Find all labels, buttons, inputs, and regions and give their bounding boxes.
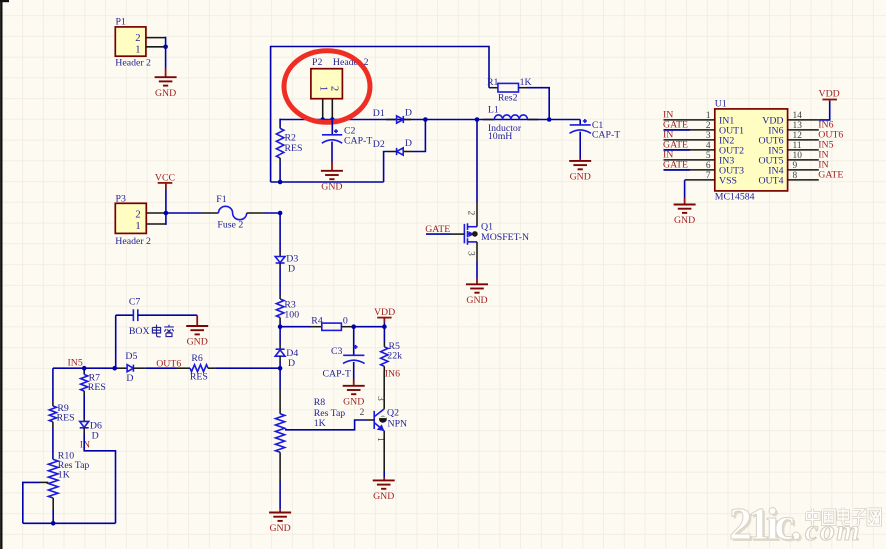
wire C1 to ground xyxy=(579,132,581,161)
svg-text:MOSFET-N: MOSFET-N xyxy=(481,232,529,243)
svg-text:1: 1 xyxy=(135,44,140,55)
junction R7 xyxy=(82,366,87,371)
connector P1 xyxy=(115,16,151,68)
U1 pin 1 IN1 xyxy=(663,110,734,127)
svg-text:BOX: BOX xyxy=(129,326,150,337)
wire P1 pin2 xyxy=(146,37,166,47)
U1 pin 7 VSS xyxy=(685,171,737,186)
svg-text:D5: D5 xyxy=(125,351,137,362)
wire Q2 emitter to ground xyxy=(383,431,385,481)
diode D1 xyxy=(373,107,412,123)
wire bus to R8 xyxy=(279,368,281,414)
wire C7 riser xyxy=(115,315,117,368)
svg-text:com: com xyxy=(805,514,861,547)
svg-text:14: 14 xyxy=(793,111,803,121)
wire D2 riser right xyxy=(411,120,425,152)
ground GND Q2 xyxy=(373,480,395,502)
connector P3 xyxy=(115,193,151,247)
svg-text:VSS: VSS xyxy=(719,175,737,186)
svg-text:CAP-T: CAP-T xyxy=(592,130,620,141)
U1 pin 8 OUT4 xyxy=(758,170,843,187)
wire D2 riser left xyxy=(384,152,388,183)
ground GND Q1 xyxy=(466,284,488,306)
wire left to R9 xyxy=(52,368,54,406)
svg-text:3: 3 xyxy=(375,396,385,401)
svg-text:22k: 22k xyxy=(387,351,402,362)
svg-text:GND: GND xyxy=(321,182,342,193)
U1 pin 12 OUT6 xyxy=(758,130,843,147)
svg-text:R6: R6 xyxy=(191,353,203,364)
wire R5 to Q2 collector xyxy=(383,372,385,409)
wire P2 pin2 xyxy=(331,99,333,120)
svg-text:1K: 1K xyxy=(314,418,326,429)
svg-text:12: 12 xyxy=(793,131,803,141)
svg-text:2: 2 xyxy=(135,210,140,221)
capacitor C2 xyxy=(322,120,373,147)
svg-text:8: 8 xyxy=(793,171,798,181)
wire R7 to D6 xyxy=(83,395,85,421)
wire P2 pin1 xyxy=(322,99,324,120)
svg-text:VDD: VDD xyxy=(819,89,840,100)
wire P1 pin1 xyxy=(146,46,166,48)
IC U1 MC14584 xyxy=(715,99,788,203)
label BOX cap xyxy=(129,325,174,338)
resistor R3 xyxy=(276,299,299,327)
ground GND P1 xyxy=(155,77,177,99)
svg-text:3: 3 xyxy=(706,131,711,141)
svg-text:GATE: GATE xyxy=(663,160,688,171)
svg-text:10: 10 xyxy=(793,151,803,161)
junction F1 bus xyxy=(278,211,283,216)
svg-text:4: 4 xyxy=(706,141,711,151)
svg-text:Header 2: Header 2 xyxy=(115,57,151,68)
svg-text:Res Tap: Res Tap xyxy=(314,408,346,419)
svg-text:GND: GND xyxy=(343,397,364,408)
resistor R5 xyxy=(381,327,402,372)
inductor L1 xyxy=(483,105,539,143)
wire C2 to ground xyxy=(331,142,333,171)
ground GND C1 xyxy=(569,161,591,183)
svg-text:21ic.: 21ic. xyxy=(729,498,800,549)
svg-text:R8: R8 xyxy=(314,397,326,408)
resistor R2 xyxy=(276,119,302,182)
svg-text:GND: GND xyxy=(187,337,208,348)
wire D6 to bottom xyxy=(84,428,115,524)
annotation red circle xyxy=(284,51,370,123)
wire D4 to junction xyxy=(279,356,281,368)
wire C3 to ground xyxy=(353,362,355,386)
resistor R10 xyxy=(48,450,89,523)
svg-text:GND: GND xyxy=(570,172,591,183)
svg-text:GND: GND xyxy=(466,295,487,306)
ground GND C7 xyxy=(186,326,208,348)
svg-text:Header 2: Header 2 xyxy=(115,236,151,247)
svg-text:IN6: IN6 xyxy=(385,369,400,380)
U1 pin 14 VDD xyxy=(762,111,819,126)
net label GATE Q1 xyxy=(425,224,464,235)
wire R1 to inductor node xyxy=(527,88,549,120)
svg-text:5: 5 xyxy=(706,151,711,161)
U1 pin 2 OUT1 xyxy=(663,120,744,137)
resistor R1 xyxy=(487,77,532,104)
wire R6 to bus xyxy=(215,367,280,369)
svg-text:GATE: GATE xyxy=(425,224,450,235)
svg-text:RES: RES xyxy=(285,143,303,154)
diode D4 xyxy=(275,348,298,369)
junction P1 xyxy=(163,45,168,50)
diode D2 xyxy=(373,138,412,155)
power VCC xyxy=(155,172,175,213)
wire R9 to R10 xyxy=(52,427,54,459)
svg-text:P2: P2 xyxy=(312,57,322,68)
svg-text:GND: GND xyxy=(155,88,176,99)
wire C7 to ground xyxy=(196,315,198,326)
resistor R6 xyxy=(177,353,216,383)
wire left net xyxy=(53,367,118,369)
svg-text:1: 1 xyxy=(135,221,140,232)
wire R4 to VDD node xyxy=(353,326,385,328)
svg-text:1K: 1K xyxy=(520,77,532,88)
power VDD mid xyxy=(374,307,395,327)
svg-text:D1: D1 xyxy=(373,108,385,119)
U1 pin 11 IN5 xyxy=(768,140,833,157)
junction D4-R6 xyxy=(278,366,283,371)
svg-text:L1: L1 xyxy=(488,105,499,116)
svg-text:2: 2 xyxy=(706,121,711,131)
svg-text:CAP-T: CAP-T xyxy=(344,136,372,147)
capacitor C3 xyxy=(323,327,365,380)
svg-text:C3: C3 xyxy=(331,346,343,357)
wire bus to D4 xyxy=(279,327,281,350)
wire bottom left xyxy=(23,522,116,524)
svg-text:RES: RES xyxy=(190,372,208,383)
svg-text:2: 2 xyxy=(329,86,340,91)
U1 pin 6 OUT3 xyxy=(663,160,744,177)
svg-text:VDD: VDD xyxy=(374,307,395,318)
wire Q1 source to ground xyxy=(476,262,478,284)
svg-text:Res2: Res2 xyxy=(498,92,518,103)
junction P3 xyxy=(164,211,169,216)
svg-text:D2: D2 xyxy=(373,139,385,150)
svg-text:RES: RES xyxy=(88,382,106,393)
svg-text:7: 7 xyxy=(706,171,711,181)
resistor R9 xyxy=(49,403,74,427)
ground GND U1 xyxy=(674,205,696,227)
wire P3 pin1 xyxy=(146,213,166,225)
power VDD U1 xyxy=(819,89,840,102)
junction C7-D5 xyxy=(112,366,117,371)
svg-text:10mH: 10mH xyxy=(488,131,513,142)
resistor R4 xyxy=(280,315,353,330)
svg-text:NPN: NPN xyxy=(388,419,408,430)
junction R10 bottom xyxy=(51,521,56,526)
svg-text:R1: R1 xyxy=(487,77,499,88)
svg-text:1: 1 xyxy=(706,111,711,121)
svg-text:D: D xyxy=(288,358,295,369)
wire loop bottom xyxy=(271,181,384,183)
svg-text:1K: 1K xyxy=(58,470,70,481)
wire top loop xyxy=(271,47,489,183)
svg-text:VCC: VCC xyxy=(155,172,175,183)
ground GND R8 xyxy=(269,513,291,535)
svg-text:GND: GND xyxy=(674,215,695,226)
wire U1 VSS to ground xyxy=(684,180,686,204)
junction P2 pin2 xyxy=(330,117,335,122)
svg-text:9: 9 xyxy=(793,161,798,171)
watermark 21ic.com xyxy=(729,498,881,549)
wire D3 to R3 xyxy=(279,263,281,299)
svg-text:GATE: GATE xyxy=(818,170,843,181)
svg-text:R2: R2 xyxy=(285,133,297,144)
diode D6 xyxy=(80,420,102,441)
svg-text:P1: P1 xyxy=(116,16,126,27)
svg-text:OUT4: OUT4 xyxy=(758,175,783,186)
svg-text:2: 2 xyxy=(135,33,140,44)
svg-text:2: 2 xyxy=(466,211,476,216)
resistor R8 xyxy=(276,397,346,481)
wire R10 tap xyxy=(23,482,49,523)
svg-text:C7: C7 xyxy=(129,296,141,307)
junction P2 pin1 xyxy=(320,117,325,122)
wire bus F1 to D3 xyxy=(279,213,281,257)
U1 pin 4 OUT2 xyxy=(663,140,744,157)
svg-text:IN5: IN5 xyxy=(68,357,83,368)
wire Q2 base xyxy=(285,408,374,430)
junction D1-D2 node xyxy=(423,117,428,122)
U1 pin 10 OUT5 xyxy=(758,150,828,167)
svg-text:MC14584: MC14584 xyxy=(715,191,755,202)
diode D5 xyxy=(118,351,146,384)
U1 pin 5 IN3 xyxy=(663,150,734,167)
capacitor C7 xyxy=(116,296,198,321)
svg-text:6: 6 xyxy=(706,161,711,171)
U1 pin 9 IN4 xyxy=(768,160,828,177)
ground GND C2 xyxy=(321,171,343,193)
svg-text:U1: U1 xyxy=(715,99,727,110)
wire U1 VDD pin xyxy=(819,102,830,120)
svg-text:D: D xyxy=(126,373,133,384)
junction VDD-R5 xyxy=(382,324,387,329)
resistor R7 xyxy=(81,368,106,395)
diode D3 xyxy=(275,253,298,274)
transistor Q1 xyxy=(464,202,529,262)
wire D5 to R6 xyxy=(146,367,177,369)
svg-text:2: 2 xyxy=(360,408,365,418)
U1 pin 13 IN6 xyxy=(768,120,833,137)
wire P3 pin2 xyxy=(146,212,166,214)
capacitor C1 xyxy=(570,119,621,141)
svg-text:11: 11 xyxy=(793,141,802,151)
svg-text:CAP-T: CAP-T xyxy=(323,368,351,379)
junction C3 xyxy=(351,324,356,329)
svg-text:GND: GND xyxy=(373,491,394,502)
wire rail to Q1 drain xyxy=(476,120,478,203)
svg-text:1: 1 xyxy=(317,86,328,91)
svg-text:R4: R4 xyxy=(311,315,323,326)
svg-text:3: 3 xyxy=(466,251,476,256)
svg-text:D: D xyxy=(405,107,412,118)
junction L1 right xyxy=(547,117,552,122)
junction L1 left xyxy=(475,117,480,122)
wire P1 to ground xyxy=(165,47,167,77)
svg-text:Q2: Q2 xyxy=(387,407,399,418)
svg-text:F1: F1 xyxy=(216,194,226,205)
svg-text:Q1: Q1 xyxy=(481,222,493,233)
svg-text:D: D xyxy=(405,138,412,149)
svg-text:D: D xyxy=(288,263,295,274)
svg-text:0: 0 xyxy=(343,315,348,326)
wire rail xyxy=(280,119,580,121)
svg-text:100: 100 xyxy=(284,309,299,320)
connector P2 xyxy=(311,57,369,99)
U1 pin 3 IN2 xyxy=(663,130,734,147)
transistor Q2 xyxy=(374,396,407,442)
svg-text:D: D xyxy=(92,431,99,442)
svg-text:13: 13 xyxy=(793,121,803,131)
ground GND C3 xyxy=(343,386,365,408)
junction R3-R4 xyxy=(278,324,283,329)
svg-text:Fuse 2: Fuse 2 xyxy=(217,219,243,230)
svg-text:GND: GND xyxy=(269,523,290,534)
svg-text:RES: RES xyxy=(57,413,75,424)
fuse F1 xyxy=(166,194,280,231)
junction R2 bottom xyxy=(278,180,283,185)
wire R8 to ground xyxy=(279,481,281,513)
